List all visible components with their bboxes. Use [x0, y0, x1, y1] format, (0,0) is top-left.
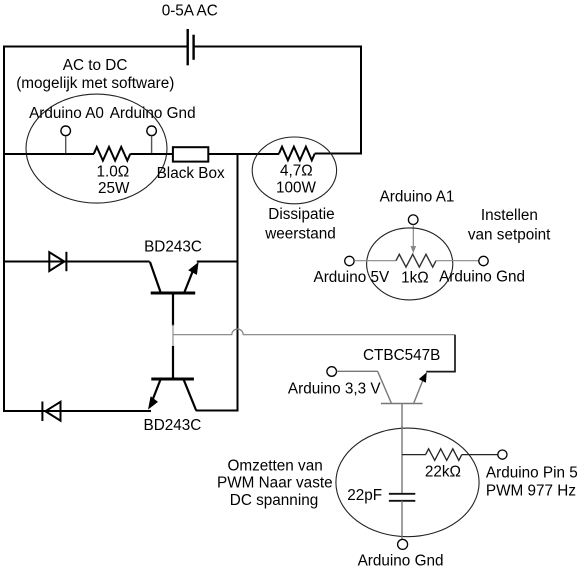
black box U1	[173, 147, 208, 161]
svg-text:Black Box: Black Box	[157, 165, 225, 182]
wire Gnd stub	[151, 136, 153, 154]
wire 3,3V to base	[337, 370, 378, 372]
svg-text:Arduino 5V: Arduino 5V	[314, 269, 390, 286]
wire R1 to black box	[130, 153, 173, 155]
terminal Arduino 3,3V	[327, 367, 337, 377]
transistor Q2 BD243C	[148, 346, 196, 411]
wire top left	[3, 46, 188, 48]
ellipse PWM filter	[336, 428, 479, 537]
wire left rail	[3, 46, 5, 413]
terminal pot Arduino Gnd	[479, 256, 488, 265]
svg-text:0-5A AC: 0-5A AC	[162, 3, 218, 20]
svg-text:PWM 977 Hz: PWM 977 Hz	[486, 483, 576, 500]
ellipse setpoint pot	[367, 228, 453, 300]
svg-text:22kΩ: 22kΩ	[425, 464, 461, 481]
svg-text:Arduino Pin 5: Arduino Pin 5	[486, 464, 578, 481]
wire right drop	[360, 46, 362, 155]
terminal Arduino A0	[61, 126, 71, 136]
resistor R2 4,7 ohm 100W	[279, 147, 315, 161]
wire bottom	[3, 410, 151, 412]
terminal Arduino Gnd (sense)	[147, 126, 157, 136]
transistor Q3 CTBC547B	[378, 371, 427, 428]
svg-text:1.0Ω: 1.0Ω	[97, 164, 130, 181]
pot wiper arrow	[411, 225, 417, 254]
wire BC547 emitter drop	[426, 335, 455, 372]
AC source B1 plate left	[186, 29, 188, 65]
svg-text:Arduino A1: Arduino A1	[380, 189, 455, 206]
terminal Arduino A1	[408, 215, 418, 225]
svg-text:Dissipatie: Dissipatie	[268, 206, 334, 223]
svg-text:100W: 100W	[276, 180, 317, 197]
resistor R1 1.0 ohm 25W	[94, 147, 131, 161]
terminal Arduino Gnd (bottom)	[398, 539, 408, 549]
svg-text:4,7Ω: 4,7Ω	[280, 163, 313, 180]
wire branch to R4	[402, 454, 426, 456]
capacitor C1 plate bottom	[389, 500, 415, 502]
wire base control line with hop	[173, 329, 455, 335]
svg-text:Omzetten van: Omzetten van	[228, 457, 323, 474]
resistor R4 22k	[426, 449, 462, 461]
diode D2	[42, 402, 60, 422]
wire top right	[194, 46, 362, 48]
wire pot right	[436, 260, 479, 262]
svg-text:AC to DC: AC to DC	[63, 57, 128, 74]
wire C1 to gnd	[401, 501, 403, 540]
wire Q2 collector to rail	[196, 410, 239, 412]
terminal Arduino Pin 5	[498, 450, 507, 459]
diode D1	[49, 252, 66, 271]
AC source B1 plate right	[192, 35, 194, 60]
wire BC547 base down	[401, 426, 403, 493]
ellipse dissipation resistor	[252, 137, 336, 204]
wire A0 stub	[65, 136, 67, 154]
wire Q1 emitter to rail	[197, 261, 239, 263]
svg-text:Arduino Gnd: Arduino Gnd	[110, 105, 196, 122]
ellipse AC-to-DC block	[26, 94, 167, 203]
wire R2 to corner	[315, 153, 362, 155]
wire mid left	[3, 153, 94, 155]
potentiometer R3 1k	[396, 254, 436, 267]
wire base node link	[172, 325, 174, 347]
capacitor C1 22pF plate top	[389, 493, 415, 495]
svg-text:22pF: 22pF	[347, 487, 382, 504]
svg-text:weerstand: weerstand	[264, 226, 336, 243]
wire R4 to pin5	[462, 454, 498, 456]
svg-text:25W: 25W	[98, 180, 130, 197]
svg-text:Instellen: Instellen	[481, 207, 538, 224]
svg-text:Arduino Gnd: Arduino Gnd	[358, 552, 444, 569]
svg-text:Arduino 3,3 V: Arduino 3,3 V	[288, 381, 381, 398]
transistor Q1 BD243C	[150, 262, 199, 326]
svg-text:1kΩ: 1kΩ	[401, 269, 429, 286]
wire black box to R2	[208, 153, 279, 155]
svg-text:Arduino A0: Arduino A0	[29, 105, 104, 122]
svg-text:BD243C: BD243C	[144, 238, 202, 255]
wire pot left	[354, 260, 396, 262]
svg-text:CTBC547B: CTBC547B	[363, 347, 440, 364]
svg-text:DC spanning: DC spanning	[230, 492, 318, 509]
svg-text:PWM Naar vaste: PWM Naar vaste	[217, 475, 333, 492]
svg-text:(mogelijk met software): (mogelijk met software)	[16, 75, 174, 92]
svg-text:Arduino Gnd: Arduino Gnd	[439, 269, 525, 286]
terminal Arduino 5V	[345, 256, 354, 265]
wire upper output	[3, 261, 150, 263]
svg-text:van setpoint: van setpoint	[468, 227, 551, 244]
wire mid rail	[237, 153, 239, 412]
svg-text:BD243C: BD243C	[144, 417, 202, 434]
